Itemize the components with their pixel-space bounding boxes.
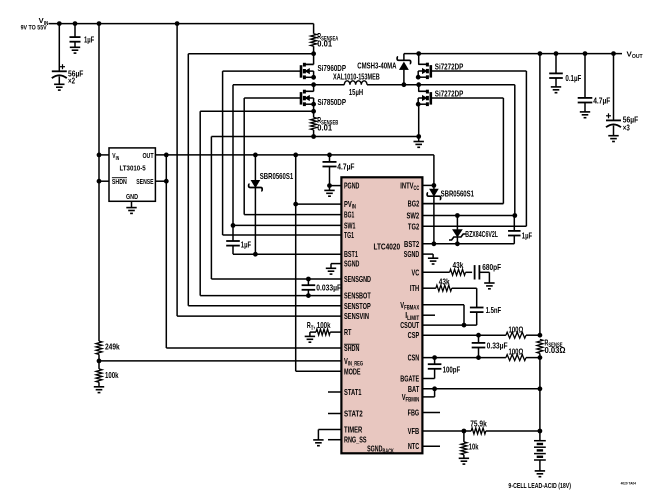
wire PGND pin bbox=[330, 185, 342, 187]
wire 1uF-BST2 line bbox=[513, 236, 515, 244]
capacitor 1.5nF bbox=[470, 307, 484, 309]
wire BG2 pin bbox=[422, 203, 503, 205]
junction RSENSE top bbox=[538, 333, 543, 338]
junction BAT-rail bbox=[538, 386, 543, 391]
svg-text:FBG: FBG bbox=[408, 408, 420, 418]
resistor RSENSEA 0.01 bbox=[311, 34, 317, 47]
wire BST cap to BST1 bbox=[232, 246, 234, 255]
svg-text:CSOUT: CSOUT bbox=[400, 320, 420, 330]
svg-text:INTV: INTV bbox=[400, 180, 413, 190]
wire INTVCC pin bbox=[422, 184, 434, 186]
junction PVIN bbox=[293, 202, 298, 207]
wire FBG stub bbox=[422, 412, 440, 414]
wire Q3 drain bbox=[418, 54, 420, 65]
svg-text:BG2: BG2 bbox=[408, 199, 420, 209]
junction BST2-zener bbox=[455, 241, 460, 246]
junction VIN-C2 bbox=[73, 21, 78, 26]
svg-text:CMSH3-40MA: CMSH3-40MA bbox=[357, 61, 396, 71]
svg-text:STAT2: STAT2 bbox=[344, 409, 363, 419]
svg-text:CC: CC bbox=[414, 186, 420, 192]
wire ILIMIT stub bbox=[422, 314, 435, 316]
svg-text:1µF: 1µF bbox=[241, 240, 251, 250]
svg-text:43k: 43k bbox=[453, 260, 464, 270]
svg-text:0.33µF: 0.33µF bbox=[487, 341, 508, 351]
ground 4.7uF out bbox=[580, 111, 590, 113]
junction INTVCC-D1 bbox=[253, 153, 258, 158]
junction Q4 PGND bbox=[416, 134, 421, 139]
junction OUT-SENSE bbox=[164, 153, 169, 158]
svg-text:Si7272DP: Si7272DP bbox=[435, 61, 464, 71]
wire Q4 source to PGND bbox=[418, 104, 420, 141]
svg-text:SGND: SGND bbox=[367, 443, 382, 453]
junction BST2-D2 bbox=[432, 241, 437, 246]
junction INTVCC pin bbox=[432, 183, 437, 188]
svg-text:4020 TA04: 4020 TA04 bbox=[621, 480, 637, 485]
svg-text:BZX84C6V2L: BZX84C6V2L bbox=[465, 229, 498, 239]
wire divider to VIN_REG bbox=[98, 354, 100, 369]
wire PVIN pin bbox=[296, 203, 342, 205]
resistor 249k bbox=[96, 341, 102, 354]
svg-text:100k: 100k bbox=[105, 370, 119, 380]
corner INTVCC down bbox=[433, 155, 435, 186]
wire VIN top rail bbox=[49, 23, 314, 25]
wire RSENSEB to PGND line bbox=[313, 130, 315, 137]
wire SENSGND tap bbox=[210, 137, 212, 280]
wire TG2 gate route bbox=[431, 70, 527, 72]
junction drain A node bbox=[311, 51, 316, 56]
svg-text:LTC4020: LTC4020 bbox=[373, 242, 400, 252]
svg-text:0.1µF: 0.1µF bbox=[565, 73, 581, 83]
svg-text:BG1: BG1 bbox=[344, 210, 354, 220]
wire U2 VIN bbox=[99, 154, 109, 156]
svg-text:XAL1010-153MEB: XAL1010-153MEB bbox=[333, 71, 380, 81]
svg-text:BAT: BAT bbox=[408, 384, 420, 394]
junction CSN-100pF bbox=[432, 355, 437, 360]
svg-text:CSP: CSP bbox=[408, 330, 420, 340]
junction SW2-zener bbox=[455, 213, 460, 218]
svg-text:0.03Ω: 0.03Ω bbox=[545, 345, 566, 355]
wire ITH-1.5nF bbox=[452, 287, 477, 289]
transistor Q1 Si7960DP bbox=[300, 65, 303, 78]
wire SW2 route bbox=[514, 85, 516, 216]
wire BST2 line bbox=[422, 243, 514, 245]
svg-text:1.5nF: 1.5nF bbox=[486, 305, 502, 315]
wire VOUT rail bbox=[539, 54, 541, 336]
svg-text:249k: 249k bbox=[105, 341, 120, 351]
junction SENSE bbox=[164, 179, 169, 184]
capacitor C2 56uF x2 input bbox=[58, 24, 60, 72]
junction SW2 pin bbox=[512, 213, 517, 218]
svg-text:0.01: 0.01 bbox=[317, 38, 332, 48]
svg-text:FBMIN: FBMIN bbox=[406, 398, 420, 404]
svg-text:100Ω: 100Ω bbox=[509, 347, 524, 357]
ground battery bbox=[535, 470, 545, 472]
diode D4 BZX84C6V2L zener bbox=[456, 216, 458, 230]
svg-text:SHDN: SHDN bbox=[112, 177, 127, 186]
junction VFB-10k bbox=[462, 429, 467, 434]
wire 100k to gnd bbox=[98, 382, 100, 387]
svg-text:IN: IN bbox=[116, 156, 120, 162]
wire CSOUT pin bbox=[422, 324, 476, 326]
svg-text:BACK: BACK bbox=[383, 449, 395, 455]
svg-text:SENSGND: SENSGND bbox=[344, 274, 371, 284]
wire RSENSEA to drain node bbox=[313, 46, 315, 54]
junction VOUT-C9 bbox=[611, 51, 616, 56]
capacitor C8 4.7uF out bbox=[584, 54, 586, 98]
wire Q2 source to RSENSEB bbox=[313, 104, 315, 117]
wire VFB pin bbox=[422, 430, 471, 432]
wire U2 SHDN bbox=[99, 180, 109, 182]
IC U1 LTC4020 bbox=[341, 177, 422, 453]
svg-text:1µF: 1µF bbox=[84, 34, 94, 44]
capacitor 0.033uF bbox=[307, 279, 309, 285]
junction VOUT-C7 bbox=[554, 51, 559, 56]
ground PGND bbox=[329, 186, 331, 191]
wire U2 OUT to INTVCC line bbox=[155, 154, 434, 156]
wire STAT2 stub bbox=[328, 413, 341, 415]
svg-text:4.7µF: 4.7µF bbox=[593, 95, 610, 105]
capacitor 0.33uF bbox=[478, 335, 480, 343]
resistor 100k divider bbox=[96, 369, 102, 382]
capacitor C1 1uF input bbox=[74, 24, 76, 37]
svg-text:Si7850DP: Si7850DP bbox=[318, 97, 347, 107]
svg-text:TIMER: TIMER bbox=[344, 425, 362, 435]
svg-text:15µH: 15µH bbox=[349, 87, 363, 97]
wire RNG_SS stub bbox=[328, 439, 341, 441]
wire rail BAT-battery bbox=[539, 389, 541, 441]
junction BAT-VFBMIN bbox=[432, 386, 437, 391]
capacitor 680pF bbox=[474, 265, 476, 279]
svg-text:×2: ×2 bbox=[68, 76, 75, 86]
svg-text:OUT: OUT bbox=[632, 54, 643, 60]
battery BT1 9-cell bbox=[534, 440, 546, 442]
ground TIMER bbox=[313, 439, 323, 441]
wire VIN to RSENSEA bbox=[313, 24, 315, 34]
wire 10k-gnd bbox=[463, 455, 465, 459]
svg-text:BST2: BST2 bbox=[404, 239, 419, 249]
svg-text:100pF: 100pF bbox=[443, 364, 461, 374]
corner SW1 route bbox=[232, 85, 234, 226]
wire SENSTOP tap bbox=[188, 53, 313, 55]
wire 100ohm-RSENSE bottom bbox=[526, 357, 540, 359]
wire SENSVIN tap bbox=[176, 24, 178, 317]
junction VOUT-rail bbox=[538, 51, 543, 56]
junction RSENSE bottom bbox=[538, 355, 543, 360]
junction RSENSEB bottom bbox=[311, 134, 316, 139]
wire SW1 pin bbox=[233, 224, 341, 226]
regulator U2 LT3010-5 box bbox=[109, 148, 155, 201]
junction VIN-SENSVIN bbox=[175, 21, 180, 26]
wire SW node line bbox=[233, 84, 344, 86]
wire TG1 gate route bbox=[223, 70, 301, 72]
wire NTC stub bbox=[422, 445, 440, 447]
wire BG1 gate route bbox=[244, 97, 301, 99]
svg-text:TG1: TG1 bbox=[344, 230, 354, 240]
resistor RT 100k bbox=[330, 331, 341, 333]
junction Q1 source to SW bbox=[311, 82, 316, 87]
ground U2 bbox=[126, 207, 136, 209]
ground SGND left bbox=[326, 267, 336, 269]
diode D3 CMSH3-40MA bbox=[403, 54, 405, 61]
svg-text:BGATE: BGATE bbox=[400, 374, 419, 384]
svg-text:RNG_SS: RNG_SS bbox=[344, 435, 367, 445]
svg-text:RT: RT bbox=[344, 327, 352, 337]
svg-text:75.9k: 75.9k bbox=[470, 419, 487, 429]
junction VFB-rail bbox=[538, 429, 543, 434]
junction PGND-4.7uF bbox=[327, 183, 332, 188]
ground PGND right bbox=[414, 141, 424, 143]
ground input 1uF bbox=[70, 46, 80, 48]
capacitor 100pF bbox=[434, 358, 436, 365]
wire BG2 gate route bbox=[431, 97, 504, 99]
wire CSN pin bbox=[422, 357, 506, 359]
wire U2 GND bbox=[131, 201, 133, 207]
junction SENSGND cap bbox=[306, 277, 311, 282]
ground 10k bbox=[459, 457, 469, 459]
wire PGND rail bbox=[211, 136, 418, 138]
svg-text:SENSVIN: SENSVIN bbox=[344, 311, 369, 321]
junction SENSBOT cap bbox=[306, 293, 311, 298]
wire VFBMAX bbox=[422, 304, 464, 306]
wire SW1 to BST cap bbox=[232, 225, 234, 241]
svg-text:SBR0560S1: SBR0560S1 bbox=[441, 188, 475, 198]
junction rail-LDO VIN bbox=[97, 153, 102, 158]
resistor RSENSEB 0.01 bbox=[311, 117, 317, 129]
wire SW2 pin bbox=[422, 215, 514, 217]
capacitor 4.7uF INTVCC bbox=[329, 155, 331, 162]
svg-text:1µF: 1µF bbox=[522, 231, 532, 241]
ground SGND right bbox=[428, 257, 438, 259]
capacitor 1uF BST2 bbox=[508, 230, 521, 232]
wire SENSBOT tap bbox=[200, 110, 313, 112]
svg-text:NTC: NTC bbox=[408, 441, 419, 451]
wire SW2-1uF bbox=[513, 216, 515, 231]
junction BST1 diode bbox=[253, 252, 258, 257]
resistor 100ohm top bbox=[506, 332, 526, 338]
svg-text:SENSBOT: SENSBOT bbox=[344, 291, 371, 301]
wire 43k-680pF bbox=[466, 271, 473, 273]
svg-text:10k: 10k bbox=[469, 442, 479, 452]
svg-text:STAT1: STAT1 bbox=[344, 387, 362, 397]
wire 75.9k-rail bbox=[486, 430, 540, 432]
capacitor C7 0.1uF out bbox=[555, 54, 557, 74]
svg-text:IN: IN bbox=[44, 21, 49, 27]
resistor 10k bbox=[463, 431, 465, 442]
ground input 56uF bbox=[54, 83, 64, 85]
resistor 43k ITH bbox=[436, 285, 452, 291]
resistor 43k VC bbox=[450, 269, 466, 275]
svg-text:PGND: PGND bbox=[344, 181, 359, 191]
wire SGND left stub bbox=[331, 263, 341, 265]
wire 100ohm-RSENSE top bbox=[526, 334, 540, 336]
svg-text:SENSE: SENSE bbox=[136, 177, 153, 186]
transistor Q2 Si7850DP bbox=[300, 92, 303, 105]
svg-text:100Ω: 100Ω bbox=[509, 324, 524, 334]
junction RSENSEB top bbox=[311, 109, 316, 114]
diode D1 SBR0560S1 bbox=[254, 155, 256, 180]
svg-text:CSN: CSN bbox=[408, 353, 420, 363]
wire BGATE pin bbox=[422, 378, 434, 380]
svg-text:SBR0560S1: SBR0560S1 bbox=[260, 171, 294, 181]
wire SW2 node line bbox=[367, 84, 515, 86]
wire STAT1 stub bbox=[328, 391, 341, 393]
inductor L1 15uH bbox=[344, 81, 367, 85]
junction rail-LDO SHDN bbox=[97, 179, 102, 184]
svg-text:VFB: VFB bbox=[408, 426, 420, 436]
svg-text:SENSTOP: SENSTOP bbox=[344, 301, 371, 311]
ground 56uF out bbox=[608, 135, 618, 137]
ground 0.1uF bbox=[551, 86, 561, 88]
wire U2 SENSE bbox=[155, 180, 166, 182]
svg-text:MODE: MODE bbox=[344, 366, 361, 376]
junction VFBMAX-CSOUT bbox=[462, 323, 467, 328]
wire SGND right bbox=[422, 253, 433, 255]
svg-text:GND: GND bbox=[126, 192, 138, 201]
svg-text:4.7µF: 4.7µF bbox=[337, 161, 354, 171]
junction VIN-C1 bbox=[57, 21, 62, 26]
diode D2 SBR0560S1 bbox=[433, 185, 435, 189]
svg-text:ITH: ITH bbox=[410, 283, 419, 293]
junction CSP-0.33uF bbox=[476, 333, 481, 338]
wire VC pin bbox=[422, 271, 449, 273]
svg-text:, 100k: , 100k bbox=[313, 320, 330, 330]
svg-text:43k: 43k bbox=[439, 276, 450, 286]
resistor RSENSE 0.03 bbox=[537, 339, 543, 353]
svg-text:SW1: SW1 bbox=[344, 220, 356, 230]
wire BAT pin bbox=[422, 388, 540, 390]
junction INTVCC-PVIN vert bbox=[293, 153, 298, 158]
svg-text:×3: ×3 bbox=[623, 122, 630, 132]
ground 680pF bbox=[484, 282, 494, 284]
capacitor 1uF BST1 bbox=[226, 240, 240, 242]
wire rail RSENSE-BAT bbox=[539, 358, 541, 389]
transistor Q4 Si7272DP bottom bbox=[429, 92, 432, 105]
ground RT bbox=[305, 335, 315, 337]
wire VIN rail down-left bbox=[98, 24, 100, 342]
wire TIMER bbox=[318, 429, 341, 431]
wire ITH pin bbox=[422, 287, 436, 289]
resistor 100ohm bottom bbox=[506, 355, 526, 361]
wire drain A bbox=[313, 54, 315, 65]
junction VOUT-C8 bbox=[583, 51, 588, 56]
svg-text:680pF: 680pF bbox=[482, 262, 501, 272]
svg-text:LT3010-5: LT3010-5 bbox=[120, 163, 146, 172]
svg-text:SGND: SGND bbox=[404, 249, 419, 259]
transistor Q3 Si7272DP top bbox=[429, 65, 432, 78]
wire 680pF-gnd bbox=[479, 271, 489, 273]
junction SW1 pin wire bbox=[231, 223, 236, 228]
junction D3 anode bbox=[402, 82, 407, 87]
svg-text:SGND: SGND bbox=[344, 259, 359, 269]
junction VIN-LDO rail bbox=[97, 21, 102, 26]
junction Q3 source SW2 bbox=[416, 82, 421, 87]
ground divider bbox=[94, 386, 104, 388]
junction divider bbox=[97, 359, 102, 364]
wire VFBMIN bbox=[434, 389, 436, 397]
svg-text:VC: VC bbox=[412, 267, 420, 277]
wire Q2 drain bbox=[313, 85, 315, 92]
svg-text:OUT: OUT bbox=[142, 151, 154, 160]
svg-text:0.033µF: 0.033µF bbox=[316, 283, 341, 293]
wire VOUT top bbox=[404, 53, 622, 55]
wire Q4 drain bbox=[418, 85, 420, 92]
wire INTVCC-PVIN-MODE bbox=[295, 155, 297, 371]
capacitor C9 56uF x3 out bbox=[613, 54, 615, 121]
wire CSP pin bbox=[422, 334, 506, 336]
resistor 75.9k bbox=[471, 428, 486, 434]
svg-text:9-CELL LEAD-ACID (18V): 9-CELL LEAD-ACID (18V) bbox=[508, 481, 571, 490]
wire 1.5nF-CSOUT bbox=[476, 312, 478, 325]
svg-text:SW2: SW2 bbox=[407, 211, 420, 221]
svg-text:0.01: 0.01 bbox=[317, 123, 332, 133]
wire battery-gnd bbox=[539, 460, 541, 471]
svg-text:TG2: TG2 bbox=[408, 221, 420, 231]
wire SENSE-SHDN vertical bbox=[165, 155, 167, 348]
junction INTVCC-4.7uF bbox=[327, 153, 332, 158]
junction VOUT-Q3 bbox=[416, 51, 421, 56]
junction CSN-0.33uF bbox=[476, 355, 481, 360]
svg-text:Si7272DP: Si7272DP bbox=[435, 88, 464, 98]
